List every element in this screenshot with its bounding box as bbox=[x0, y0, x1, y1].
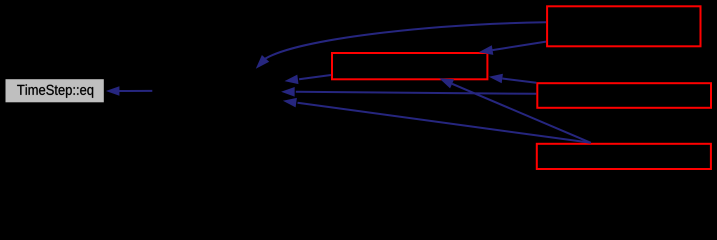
node TimeStep::eq (gray current node) bbox=[6, 79, 104, 102]
edge T to M (short diagonal into M top-right) bbox=[479, 42, 546, 55]
edge B to invisible node (shallow diagonal) bbox=[283, 98, 591, 143]
edge R2 to invisible node (long horizontal) bbox=[281, 87, 536, 97]
edge M to invisible node bbox=[285, 75, 332, 85]
edge invisible-node to TimeStep::eq bbox=[106, 86, 152, 96]
edge B to M (steep diagonal into M bottom) bbox=[439, 78, 591, 143]
node B (bottom red box, label hidden) bbox=[537, 144, 711, 169]
edge T arc to invisible node (long top curve) bbox=[256, 22, 546, 69]
edge R2 to M (into M bottom-right corner) bbox=[489, 74, 536, 84]
node T (top-right red box, label hidden) bbox=[547, 6, 700, 46]
node R2 (right-middle red box, label hidden) bbox=[537, 83, 711, 108]
node M (middle red box, label hidden) bbox=[332, 53, 487, 79]
